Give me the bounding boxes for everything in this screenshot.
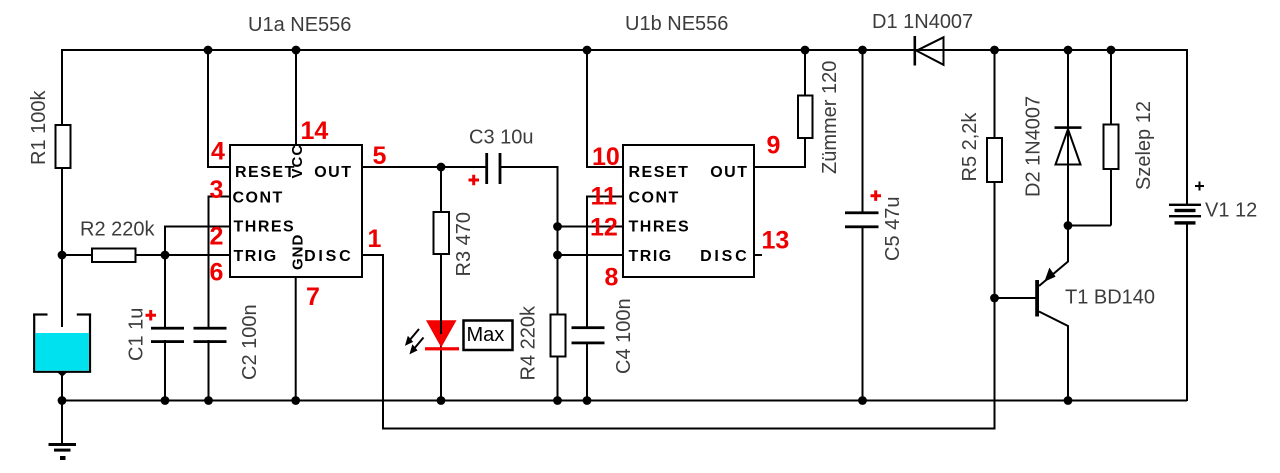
node dot top rail pin10 [583,46,592,55]
wire left rail middle (R1 to sensor cup) [61,167,63,314]
node dot base R5 disc junction [990,294,999,303]
resistor R5 [987,138,1002,182]
svg-text:R2 220k: R2 220k [80,219,155,241]
svg-text:C3 10u: C3 10u [469,127,534,149]
svg-text:C1 1u: C1 1u [126,308,148,361]
node dot top rail Szelep [1107,46,1116,55]
capacitor C5 plates [845,211,879,228]
diode D1 [914,36,944,66]
node dot ground rail C2 [204,396,213,405]
op-amp U1a NE556 timer box [230,145,362,277]
wire right rail to battery top [1186,49,1188,204]
wire base node to transistor base [995,297,1037,299]
svg-text:CONT: CONT [629,190,680,207]
resistor R2 [92,249,136,263]
svg-text:10: 10 [592,143,620,171]
wire segment visible inside LED [440,320,442,334]
node dot top rail R5 [990,46,999,55]
node dot ground rail pin7 [291,396,300,405]
wire node to C1 top [164,255,166,328]
svg-text:14: 14 [301,117,329,145]
node dot top rail D2 [1064,46,1073,55]
svg-text:3: 3 [210,176,224,204]
wire R5 bottom to base node [994,181,996,298]
water sensor cup outline [33,314,91,373]
node dot trig U1b junction [553,251,562,260]
node dot ground rail R4 [553,396,562,405]
capacitor C1 plates [151,327,184,343]
svg-text:9: 9 [767,132,781,160]
svg-text:C5 47u: C5 47u [882,197,904,262]
resistor R3 [434,212,450,254]
wire R5 top from rail [994,50,996,139]
LED light arrows [407,329,424,353]
svg-text:C2 100n: C2 100n [239,304,261,380]
svg-text:GND: GND [290,234,307,270]
svg-text:11: 11 [591,183,618,211]
node dot top rail pin14 [292,46,301,55]
wire buzzer top to rail [804,50,806,96]
svg-text:DISC: DISC [304,248,353,265]
capacitor C2 plates [194,327,227,343]
wire left rail lower (cup bottom to ground symbol) [61,375,63,444]
wire battery bottom to ground rail [1186,225,1188,402]
capacitor C4 plates [572,326,605,344]
wire U1a OUT pin5 to C3 [362,166,486,168]
wire pin9 out U1b to buzzer [754,137,805,167]
wire C2 bottom to ground rail [208,340,210,401]
wire D2 branch from rail [1067,50,1069,226]
wire pin1 disc U1a routed to transistor base node [362,255,995,429]
wire pin13 disc U1b stub [754,254,762,256]
svg-text:4: 4 [211,138,225,166]
wire C3 right to vertical feed [501,167,558,315]
transistor T1 base bar [1035,280,1039,317]
svg-text:1: 1 [368,225,382,253]
wire pin10 reset U1b from top rail [587,50,623,167]
wire pin12 thres U1b [558,226,624,228]
node dot trig thres junction [161,251,170,260]
valve Szelep resistor body [1104,125,1119,170]
wire pin7 gnd U1a to ground rail [295,277,297,401]
svg-text:RESET: RESET [235,164,296,181]
diode D2 [1055,126,1082,164]
node dot ground rail LED [437,396,446,405]
svg-text:V1 12: V1 12 [1205,200,1257,222]
svg-text:U1b NE556: U1b NE556 [625,13,728,35]
node dot ground rail C5 [858,396,867,405]
wire R4 bottom to ground rail [557,356,559,401]
node dot out R3 junction [437,163,446,172]
svg-text:13: 13 [762,227,790,255]
wire out node to R3 [440,167,442,213]
cup bottom contact triangle [57,372,69,377]
node dot R2 left [58,251,67,260]
node dot ground rail left [58,396,67,405]
svg-text:TRIG: TRIG [629,248,673,265]
polarity plus C3 [469,175,480,186]
battery V1 plates [1169,204,1201,225]
svg-text:T1 BD140: T1 BD140 [1065,287,1155,309]
wire pin4 reset U1a from top rail [208,50,230,167]
capacitor C3 plates [485,153,501,184]
svg-text:VCC: VCC [289,144,306,179]
wire R3 through LED to ground rail [440,253,442,401]
node dot thres U1b junction [553,222,562,231]
wire pin2 thres U1a down to trig node [165,227,230,256]
svg-text:OUT: OUT [314,164,352,181]
wire pin14 vcc U1a from top rail [295,50,297,146]
svg-text:D1 1N4007: D1 1N4007 [872,11,973,33]
wire bottom ground rail [62,400,1187,402]
resistor R4 [551,315,566,357]
svg-text:R4 220k: R4 220k [518,305,540,380]
LED D3 body [425,320,459,350]
buzzer Zümmer resistor body [798,96,813,139]
wire R2 left to rail [62,254,92,256]
wire Szelep bottom [1110,168,1112,226]
wire C5 top from rail [862,50,864,212]
svg-text:Max: Max [467,324,505,346]
svg-text:7: 7 [306,283,320,311]
wire left rail upper (top rail to R1) [61,49,63,126]
label box Max [464,321,513,351]
node dot top rail C5 [858,46,867,55]
svg-text:R5 2,2k: R5 2,2k [959,112,981,182]
svg-text:D2 1N4007: D2 1N4007 [1023,96,1045,197]
node dot ground rail C4 [583,396,592,405]
wire pin11 cont U1b to C4 [587,197,623,328]
resistor R1 [56,125,71,168]
svg-text:5: 5 [373,142,387,170]
transistor T1 emitter arrow [1045,269,1055,282]
svg-text:R1 100k: R1 100k [28,90,50,165]
svg-text:Szelep 12: Szelep 12 [1133,101,1155,190]
wire pin6 trig U1a to R2 [136,254,231,256]
svg-text:U1a NE556: U1a NE556 [248,14,351,36]
svg-text:OUT: OUT [710,164,748,181]
wire C1 bottom to ground rail [164,340,166,401]
ground symbol [49,443,77,460]
polarity plus C1 [146,310,157,321]
svg-text:R3 470: R3 470 [453,212,475,277]
svg-text:CONT: CONT [233,190,284,207]
svg-text:6: 6 [210,259,224,287]
svg-text:C4 100n: C4 100n [613,298,635,374]
node dot D2 Szelep emitter junction [1064,221,1073,230]
sensor probe wire into cup [61,310,63,327]
svg-text:2: 2 [210,223,224,251]
svg-text:8: 8 [605,264,619,292]
svg-text:RESET: RESET [629,164,690,181]
svg-text:12: 12 [590,214,618,242]
wire pin8 trig U1b [558,254,624,256]
wire pin3 cont U1a to C2 [209,197,231,329]
svg-text:THRES: THRES [234,219,296,236]
wire Szelep top from rail [1110,50,1112,125]
svg-text:DISC: DISC [700,248,749,265]
op-amp U1b NE556 timer box [623,145,754,277]
svg-text:Zümmer 120: Zümmer 120 [819,61,841,174]
wire C4 bottom to ground rail [586,343,588,401]
wire D2 Szelep bottom link [1068,225,1111,227]
water fill in cup [35,333,89,371]
polarity plus C5 [871,190,882,201]
node dot ground rail T1 collector [1064,396,1073,405]
node dot top rail pin4 [204,46,213,55]
svg-text:THRES: THRES [629,219,691,236]
node dot top rail buzzer [801,46,810,55]
svg-text:TRIG: TRIG [234,248,278,265]
wire C5 bottom to ground rail [862,228,864,401]
wire top supply rail [62,49,1187,51]
wire T1 emitter [1039,226,1068,287]
battery plus sign [1195,182,1204,191]
node dot ground rail C1 [161,396,170,405]
wire T1 collector [1039,312,1068,401]
